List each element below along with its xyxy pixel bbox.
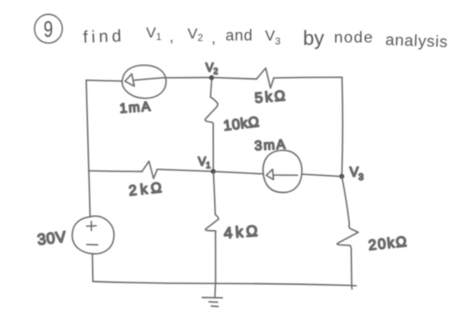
svg-text:V3: V3 [265,28,281,48]
svg-text:,: , [170,29,174,46]
wire: node V2 down to 10k resistor [211,80,212,97]
wire: node V1 down to 4k resistor [214,174,216,215]
wire: 4k resistor down to bottom rail [215,233,217,283]
wire: node V2 to 5k resistor [214,78,257,79]
svg-text:and: and [226,28,253,45]
wire: right rail, node V3 down to 20k resistor [342,176,350,224]
wire: right rail, 20k resistor to bottom-right corner [350,248,353,289]
svg-text:2kΩ: 2kΩ [128,180,166,200]
wire: left rail, middle junction down to 30V source [89,171,90,217]
svg-text:9: 9 [44,16,54,42]
svg-text:node: node [334,30,374,47]
resistor R-4k zigzag [205,215,218,234]
resistor R-2k zigzag [142,161,157,178]
svg-text:V3: V3 [350,165,364,183]
current source I2: arrowhead [266,169,273,179]
svg-text:V2: V2 [206,61,219,77]
node V3 junction dot [339,174,344,179]
current source I1 (1mA): circle [122,65,166,98]
svg-text:V2: V2 [188,26,204,45]
resistor R-20k zigzag [337,224,358,248]
svg-text:3mA: 3mA [254,137,287,154]
voltage source VS 30V: circle [72,216,114,254]
resistor R-5k zigzag [257,68,274,88]
svg-text:find: find [83,26,125,46]
current source I1: arrow shaft [134,78,166,81]
wire: left rail, 30V source down to bottom-left corner [91,254,94,282]
current source I2: arrow shaft [274,174,298,176]
wire: bottom rail, ground junction to bottom-right corner [216,283,352,285]
title handwriting [44,16,449,51]
wire: 2k resistor to node V1 [157,169,211,171]
svg-text:20kΩ: 20kΩ [368,234,409,254]
voltage source VS: minus sign [87,244,98,246]
svg-text:,: , [212,30,216,47]
wire: node V1 to 3mA source [215,172,263,174]
svg-text:by: by [303,28,324,50]
svg-text:V1: V1 [146,25,162,44]
svg-text:analysis: analysis [385,32,448,51]
wire: 3mA source to node V3 [302,174,340,176]
svg-text:V1: V1 [198,155,211,171]
wire: top rail, top-left corner to 1mA source [86,79,122,82]
svg-text:5kΩ: 5kΩ [254,88,288,107]
ground symbol [202,283,222,306]
wire: right rail, top corner down to node V3 [341,77,344,176]
wire: bottom rail, left corner to ground junction [93,282,216,284]
wire: bottom-right corner overshoot tick [352,284,357,286]
svg-text:4kΩ: 4kΩ [223,223,261,243]
svg-text:10kΩ: 10kΩ [223,114,261,134]
wire: 1mA source to node V2 [166,77,209,79]
node V1 junction dot [211,169,216,174]
wire: left rail, top-left corner down to middle-wire junction [86,80,89,171]
wire: 10k resistor down to node V1 [212,126,214,169]
current source I1: arrowhead [125,74,134,86]
svg-text:1mA: 1mA [119,99,152,116]
resistor R-10k zigzag [205,97,218,126]
wire: middle rail, left junction to 2k resistor [89,170,142,173]
svg-text:30V: 30V [36,229,67,249]
current source I2 (3mA): circle [263,150,302,192]
wire: 5k resistor to top-right corner [274,76,342,79]
problem number badge (circled 9) [35,14,63,43]
voltage source VS: plus sign [87,221,97,230]
node V2 junction dot [209,75,214,80]
